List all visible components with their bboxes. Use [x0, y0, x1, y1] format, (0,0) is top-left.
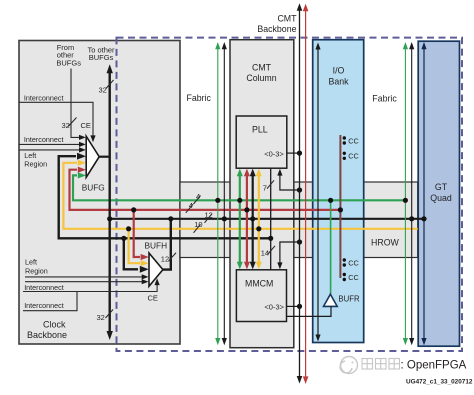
svg-text:CC: CC	[348, 152, 359, 161]
svg-text:7: 7	[263, 183, 267, 192]
label CE of BUFH	[148, 294, 158, 303]
wire from other BUFGs into BUFG input1	[71, 69, 86, 140]
label HROW	[371, 238, 400, 248]
label 7	[263, 180, 274, 192]
wire CMT red vertical PLL-MMCM	[244, 169, 250, 270]
svg-text:Clock: Clock	[43, 320, 66, 330]
svg-text:MMCM: MMCM	[245, 279, 273, 289]
wire black thick drop to BUFH	[121, 236, 149, 273]
watermark logo circle	[340, 357, 357, 374]
label PLL	[252, 125, 268, 135]
svg-text:Bank: Bank	[328, 77, 349, 87]
svg-text:Interconnect: Interconnect	[24, 135, 64, 144]
label 4 on green bus	[194, 192, 201, 204]
label Interconnect lower1	[24, 283, 64, 292]
wire red drop to BUFH	[131, 207, 149, 260]
svg-text:GT: GT	[435, 182, 448, 192]
wire fabric green vertical right	[403, 42, 408, 345]
label CE of BUFG	[81, 121, 91, 130]
label 12 on black1 bus	[205, 211, 213, 223]
label BUFR	[338, 294, 360, 303]
op-amp buffer BUFR	[324, 294, 338, 306]
wire CMT black vertical PLL-MMCM	[250, 169, 256, 270]
wire MMCM output 0-3	[287, 304, 303, 309]
label Left Region upper	[24, 151, 47, 168]
label 32 bottom on backbone vertical	[97, 310, 114, 322]
svg-text:CE: CE	[148, 294, 158, 303]
label 32 on BUFG CE interconnect	[62, 118, 77, 131]
label CC 2	[348, 152, 359, 161]
label Fabric right	[372, 94, 397, 104]
svg-text:HROW: HROW	[371, 238, 400, 248]
svg-text:Column: Column	[246, 73, 276, 83]
wire BUFR input from MMCM	[287, 307, 332, 317]
svg-text:Region: Region	[24, 159, 47, 168]
svg-text:Quad: Quad	[430, 193, 452, 203]
label 14	[261, 246, 275, 258]
svg-text:Fabric: Fabric	[187, 93, 212, 103]
label Clock Backbone	[27, 320, 67, 341]
svg-text:CE: CE	[81, 121, 91, 130]
wire black1 bus horizontal	[110, 218, 424, 220]
svg-text:Interconnect: Interconnect	[24, 93, 64, 102]
wire CMT backbone black vertical long	[297, 3, 303, 383]
wire yellow bus from HROW to BUFG input	[63, 160, 417, 229]
label Fabric left	[187, 93, 212, 103]
svg-text:14: 14	[261, 249, 269, 258]
label CC 3	[348, 258, 359, 267]
label Interconnect upper2	[24, 135, 64, 144]
wire fabric green vertical left	[215, 42, 220, 345]
wire left region lower into BUFH	[25, 274, 149, 279]
label 4 on red bus	[186, 201, 193, 213]
svg-text:UG472_c1_33_020712: UG472_c1_33_020712	[406, 379, 473, 386]
svg-text:CMT: CMT	[252, 63, 272, 73]
op-amp buffer BUFH	[149, 253, 163, 286]
label BUFG	[82, 183, 105, 193]
wire red bus to BUFG input	[70, 167, 341, 210]
wire CMT green vertical PLL-MMCM	[237, 169, 243, 270]
wire yellow drop to BUFH	[126, 226, 149, 266]
label From other BUFGs	[56, 43, 81, 67]
svg-text:Interconnect: Interconnect	[24, 283, 64, 292]
svg-text:<0-3>: <0-3>	[264, 303, 284, 312]
svg-text:I/O: I/O	[333, 66, 345, 76]
svg-text:Region: Region	[25, 267, 48, 276]
label 12 on BUFH output	[161, 253, 176, 263]
svg-text:CMT: CMT	[277, 14, 297, 24]
svg-text:<0-3>: <0-3>	[264, 149, 284, 158]
wire BUFG output to backbone vertical	[99, 156, 110, 158]
wire unlabeled interconnect into BUFH	[25, 279, 149, 284]
svg-text:Interconnect: Interconnect	[24, 301, 64, 310]
wire BUFH output up to black1 bus	[163, 216, 174, 269]
wire green BUFR output to green bus	[328, 198, 333, 294]
label To other BUFGs	[87, 45, 115, 62]
svg-text:BUFH: BUFH	[145, 241, 168, 251]
wire CMT yellow vertical PLL-MMCM	[256, 169, 262, 270]
label 10 on yellow bus	[194, 220, 203, 233]
label BUFH	[145, 241, 168, 251]
wire GT quad internal vertical	[421, 42, 426, 345]
MMCM box U-MMCM	[236, 270, 286, 322]
CMT Backbone dashed boundary	[117, 38, 463, 351]
svg-text:Fabric: Fabric	[372, 94, 397, 104]
node CC pair 3	[343, 258, 346, 266]
svg-text:PLL: PLL	[252, 125, 268, 135]
GT Quad box	[418, 41, 459, 346]
svg-text:32: 32	[97, 313, 105, 322]
label 32 top on backbone vertical	[99, 80, 114, 94]
wire fabric black vertical right	[409, 42, 414, 345]
svg-text:BUFR: BUFR	[338, 294, 360, 303]
svg-text:BUFG: BUFG	[82, 183, 105, 193]
wire MMCM input from backbone	[277, 239, 302, 269]
svg-text:BUFGs: BUFGs	[89, 53, 114, 62]
svg-text:Backbone: Backbone	[257, 24, 296, 34]
label GT Quad	[430, 182, 452, 203]
svg-text:12: 12	[161, 254, 169, 263]
wire interconnect upper2 into BUFG	[19, 142, 86, 147]
wire CC maroon vertical in IO bank	[338, 135, 343, 278]
svg-text:CC: CC	[348, 273, 359, 282]
label CMT Backbone	[257, 14, 297, 34]
wire left region upper into BUFG	[19, 147, 86, 152]
label CMT Column	[246, 63, 276, 84]
node CC pair 1	[343, 136, 346, 144]
label MMCM pins 0-3	[264, 303, 284, 312]
wire interconnect lower2 joining CE net	[23, 292, 77, 311]
svg-text:CC: CC	[348, 258, 359, 267]
wire black2 bus from HROW to BUFG thick input	[59, 153, 271, 239]
op-amp buffer BUFG	[86, 136, 99, 177]
node CC pair 2	[343, 152, 346, 160]
svg-text:32: 32	[99, 85, 107, 94]
node CC pair 4	[343, 273, 346, 281]
wire CMT backbone red vertical long	[303, 4, 309, 384]
svg-text:BUFGs: BUFGs	[56, 58, 81, 67]
svg-text:CC: CC	[348, 136, 359, 145]
clock backbone region box	[19, 41, 180, 345]
PLL box U-PLL	[236, 116, 287, 168]
label figure number	[406, 379, 473, 386]
label Interconnect upper1	[24, 93, 64, 102]
label Interconnect lower2	[24, 301, 64, 310]
wire fabric black vertical left	[222, 42, 227, 345]
label PLL pins 0-3	[264, 149, 284, 158]
wire interconnect lower1 to BUFH CE	[23, 278, 160, 291]
CMT Column box	[230, 40, 294, 348]
label CC 1	[348, 136, 359, 145]
wire PLL input from backbone	[277, 169, 302, 193]
label CC 4	[348, 273, 359, 282]
label MMCM	[245, 279, 273, 289]
svg-text:: OpenFPGA: : OpenFPGA	[401, 360, 467, 372]
wire 7-14 line PLL to MMCM	[268, 168, 273, 270]
wire PLL output 0-3	[287, 151, 302, 156]
I/O Bank box	[313, 40, 364, 343]
watermark text	[362, 359, 467, 372]
node junction BUFG line to black1 bus	[107, 216, 112, 221]
svg-text:Backbone: Backbone	[27, 330, 67, 340]
wire green bus to BUFG input	[73, 172, 405, 200]
wire vertical 32 backbone to other BUFGs and down	[107, 64, 113, 340]
wire interconnect upper1 to CE of BUFG	[19, 102, 96, 142]
label Left Region lower	[25, 257, 48, 275]
wire IO bank internal vertical	[315, 43, 320, 342]
HROW band	[180, 182, 418, 258]
label I/O Bank	[328, 66, 349, 87]
svg-text:Left: Left	[25, 257, 37, 266]
